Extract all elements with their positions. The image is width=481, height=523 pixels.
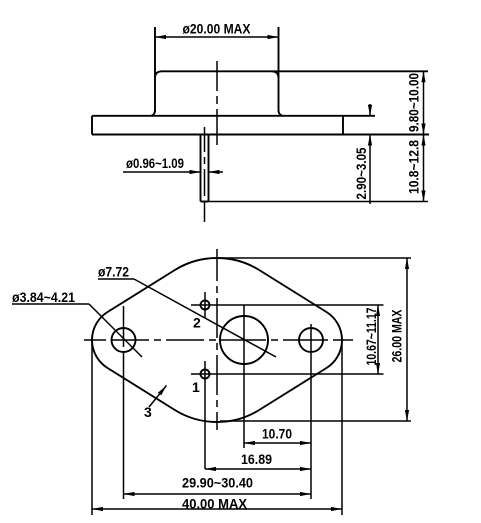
svg-text:2: 2 <box>193 315 201 331</box>
svg-text:10.67~11.17: 10.67~11.17 <box>363 307 379 365</box>
svg-text:40.00 MAX: 40.00 MAX <box>182 496 248 512</box>
svg-text:26.00 MAX: 26.00 MAX <box>389 309 405 362</box>
svg-text:ø3.84~4.21: ø3.84~4.21 <box>12 289 75 305</box>
svg-text:1: 1 <box>192 379 200 395</box>
svg-text:10.70: 10.70 <box>262 426 292 442</box>
svg-text:29.90~30.40: 29.90~30.40 <box>182 475 253 491</box>
svg-text:3: 3 <box>144 404 152 420</box>
svg-text:16.89: 16.89 <box>241 451 272 467</box>
svg-text:9.80~10.00: 9.80~10.00 <box>406 73 422 132</box>
svg-text:ø0.96~1.09: ø0.96~1.09 <box>126 155 184 171</box>
svg-text:2.90~3.05: 2.90~3.05 <box>353 147 369 199</box>
svg-text:ø7.72: ø7.72 <box>98 264 129 280</box>
svg-text:ø20.00 MAX: ø20.00 MAX <box>183 21 252 37</box>
svg-text:10.8~12.8: 10.8~12.8 <box>406 140 422 194</box>
